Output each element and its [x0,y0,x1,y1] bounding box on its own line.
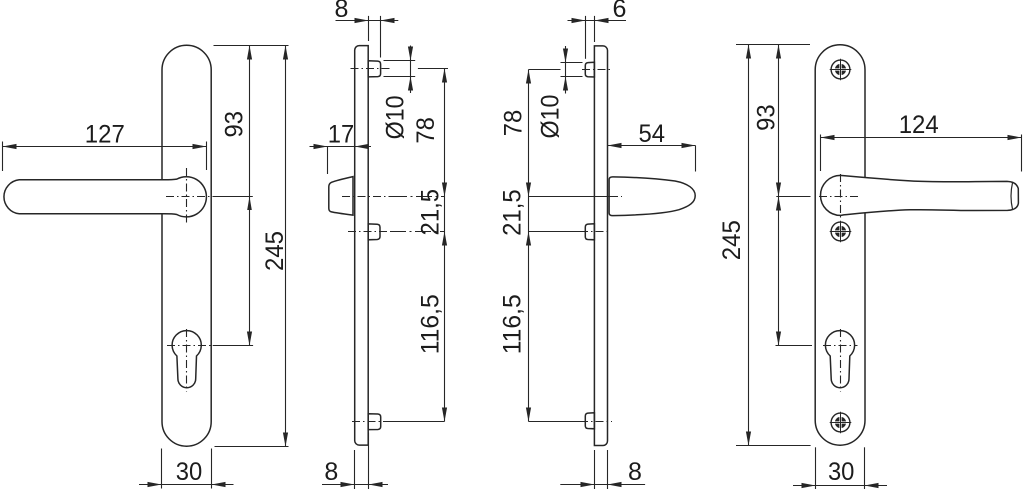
top extension view4 [736,44,810,46]
screw middle view4 [831,222,850,241]
dimension 30 view1 [139,449,234,489]
dimension 93 chain view1 [213,46,289,346]
centerlines view3 [529,69,561,71]
svg-text:21,5: 21,5 [417,189,445,236]
middle boss view3 [585,224,594,240]
dimension 30 view4 [793,447,887,489]
chain dims 78 / 21,5 / 116,5 view2 [444,69,446,422]
dimension O10 view2 [384,46,416,94]
plate profile view2 [355,46,369,446]
svg-text:127: 127 [85,121,125,149]
keyhole crosshair view1 [167,345,214,347]
dimension 127 view1 [3,142,207,172]
svg-text:8: 8 [628,458,642,486]
dimension 124 view4 [821,135,1022,172]
svg-text:Ø10: Ø10 [537,95,565,139]
euro cylinder keyhole view1 [172,331,201,388]
svg-text:78: 78 [412,117,440,144]
backplate view1 [162,45,211,446]
svg-text:6: 6 [612,0,626,23]
lever side profile view3 [609,177,695,216]
hub crosshair view4 [819,196,859,198]
svg-text:78: 78 [500,110,528,137]
svg-text:8: 8 [334,0,348,23]
middle boss view2 [368,224,380,240]
svg-text:124: 124 [899,111,939,139]
top boss view3 [585,62,594,77]
backplate view4 [815,45,865,445]
svg-text:30: 30 [176,458,203,486]
keyhole crosshair view4 [823,345,858,347]
top boss view2 [368,61,380,77]
keyhole view4 [825,331,854,388]
centerlines view2 [351,68,392,70]
dimension 93 chain view4 [776,45,813,346]
svg-text:93: 93 [753,104,781,131]
dimension 8 top view2 [336,16,399,58]
handle lever and hub view1 [4,177,206,217]
dimension O10 view3 [561,46,583,94]
screw top view4 [831,60,850,79]
dimension 6 top view3 [568,16,627,59]
svg-text:93: 93 [221,111,249,138]
bottom boss view2 [368,414,381,430]
svg-text:17: 17 [328,120,355,148]
screw bottom view4 [831,413,850,432]
svg-text:30: 30 [828,458,855,486]
dimension 8 bottom view3 [560,450,645,489]
svg-text:116,5: 116,5 [417,294,445,354]
dimension 245 view1 [215,46,289,447]
handle lever and hub view4 [821,175,1019,215]
dimension 54 view3 [608,146,696,172]
svg-text:Ø10: Ø10 [382,95,410,139]
svg-text:8: 8 [324,458,338,486]
svg-text:54: 54 [639,120,666,148]
dimension 245 view4 [748,45,750,446]
svg-text:245: 245 [261,231,289,271]
lever side profile view2 [329,177,353,216]
bottom boss view3 [585,413,594,429]
bottom extension view4 [736,445,811,447]
svg-text:245: 245 [718,220,746,260]
svg-text:21,5: 21,5 [499,189,527,236]
plate profile view3 [594,46,607,446]
dimension 8 bottom view2 [322,433,388,490]
hub crosshair view1 [166,196,217,198]
dimension 17 view2 [310,147,372,175]
lever end cap line view4 [1011,182,1013,209]
chain dims 78 / 21,5 / 116,5 view3 [528,70,530,422]
svg-text:116,5: 116,5 [499,294,527,354]
